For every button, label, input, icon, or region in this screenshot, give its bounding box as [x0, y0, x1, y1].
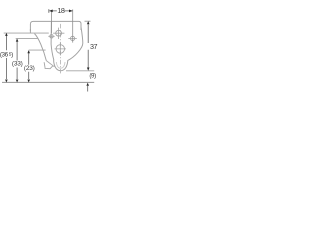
node dim 23 vertical line	[28, 51, 30, 79]
svg-text:(36: (36	[0, 52, 9, 59]
node fixing hole A crosshair	[56, 30, 62, 36]
node outlet hole C crosshair	[56, 45, 65, 54]
node dim 36.5 top arrow	[5, 33, 8, 36]
node dim 23 bottom arrow	[27, 80, 30, 83]
node dim 33 vertical line	[16, 39, 18, 79]
node rim line / extension line (36.5 level)	[4, 32, 49, 34]
node dim 37 line	[87, 25, 89, 68]
svg-text:(9): (9)	[89, 72, 96, 79]
node dim 33 top arrow	[16, 39, 19, 42]
node dim 37 top arrow	[87, 21, 90, 24]
node dim 36.5 vertical line	[5, 34, 7, 80]
wire rear view right outline	[68, 27, 83, 60]
node dim 23 top arrow	[27, 50, 30, 53]
svg-text:(23): (23)	[24, 65, 35, 72]
node dim 37 bottom arrow	[87, 68, 90, 71]
wire bowl U outline (rear view)	[54, 60, 68, 70]
node extension line (23 level)	[29, 49, 46, 51]
top outline of WC (shared side+rear view)	[30, 21, 81, 31]
wire outlet stub (side view)	[44, 62, 53, 68]
wire underside curve of bowl (side view)	[35, 34, 47, 61]
node dim 9 bottom arrow (below floor, pointing up)	[86, 83, 89, 86]
node hole D small crosshair	[50, 35, 53, 38]
wire outlet diagonal	[46, 61, 54, 67]
node dim 33 bottom arrow	[16, 80, 19, 83]
node dim 18 right arrow	[69, 10, 73, 13]
svg-text:18: 18	[57, 6, 64, 15]
node fixing hole B crosshair	[71, 36, 75, 40]
svg-text:(33): (33)	[12, 61, 23, 68]
node dim 18 extension line left	[50, 11, 52, 33]
node dim 18 left arrow	[49, 10, 53, 13]
node dim 37 extension at top	[85, 20, 91, 22]
node extension line (33 level)	[16, 37, 39, 39]
wire inner bowl line	[56, 62, 65, 68]
wire bowl bottom extension line L1	[66, 70, 94, 72]
node dim 18 line	[52, 10, 72, 12]
node dim 18 extension line right	[72, 9, 74, 42]
wire rear view left outline	[51, 21, 54, 60]
ground floor line	[2, 81, 94, 83]
node dim 36.5 bottom arrow	[5, 80, 8, 83]
node centerline (dash-dot)	[60, 24, 62, 75]
svg-text:): )	[11, 52, 13, 59]
svg-text:37: 37	[90, 42, 97, 51]
wire front face lower	[29, 29, 31, 33]
node dim 18 extension tick left	[48, 9, 50, 13]
